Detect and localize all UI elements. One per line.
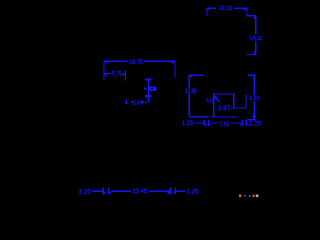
dimension D9 6.25 leader arrow (214, 96, 220, 102)
svg-text:1.25: 1.25 (78, 188, 91, 195)
dimension D15 15.45: dimension line (150, 187, 186, 194)
dimension D5 pad vertical: dimension line (145, 79, 152, 102)
dimension D3 18.75: dimension line (104, 61, 175, 80)
svg-text:1.93: 1.93 (249, 96, 260, 102)
dimension D14 1.25 (bottom left): dimension line (92, 187, 131, 194)
dimension D6 2.09: dimension line (126, 99, 145, 104)
dimension D5 arrowhead at pad (144, 87, 147, 91)
baseline under body (189, 116, 238, 118)
svg-text:14.12: 14.12 (250, 35, 263, 42)
pad 1 drill hole (151, 88, 153, 90)
svg-text:5.79: 5.79 (112, 71, 123, 78)
svg-text:10.90: 10.90 (185, 88, 197, 95)
svg-text:10.19: 10.19 (218, 5, 233, 12)
svg-text:15.45: 15.45 (132, 188, 148, 195)
svg-text:1.25: 1.25 (186, 188, 199, 195)
svg-text:2.09: 2.09 (133, 100, 142, 106)
dimension D7 10.90 left vertical: dimension line (189, 75, 204, 117)
watermark colored marks bottom right (239, 195, 259, 197)
dimension D8 1.93 right vertical: dimension line (247, 75, 257, 120)
svg-text:18.75: 18.75 (129, 59, 143, 66)
svg-text:1.25: 1.25 (249, 120, 262, 127)
dimension D1 10.19 top: dimension line (207, 8, 256, 16)
svg-text:2.87: 2.87 (218, 105, 231, 112)
dimension D11 1.25 (row2 left): dimension line (195, 120, 212, 126)
component body outline (214, 94, 246, 117)
dimension D2 14.12 right vertical: dimension line (246, 16, 255, 55)
svg-text:6.25: 6.25 (206, 99, 215, 105)
dimension D4 5.79: dimension line (104, 70, 126, 81)
dimension D12 7.62: dimension line (212, 120, 249, 126)
svg-text:1.25: 1.25 (182, 120, 194, 127)
pad 1 (through-hole pad) (149, 86, 156, 91)
svg-text:7.62: 7.62 (219, 121, 230, 128)
